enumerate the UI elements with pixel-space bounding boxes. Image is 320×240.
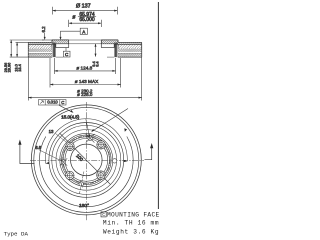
left thickness dimension 19.0/18.4 <box>14 42 29 71</box>
section: hub flange hatched left <box>52 40 69 44</box>
svg-text:180°: 180° <box>79 203 89 209</box>
section: hat skirt wall left <box>53 43 56 58</box>
runout tolerance box 0.010/C <box>39 100 74 113</box>
front view: bolt hole BR <box>97 171 106 180</box>
front view: hub circle Ø137 <box>52 125 121 194</box>
svg-text:15.0(4.5): 15.0(4.5) <box>61 114 80 119</box>
svg-text:C: C <box>61 100 64 105</box>
svg-text:ø 228.0: ø 228.0 <box>77 92 93 97</box>
dimension Ø230.2 / Ø228.0 <box>28 58 141 101</box>
front view: small hole left with cross marks <box>60 158 67 165</box>
dimension Ø143 MAX <box>50 58 121 88</box>
front view: small hole bottom <box>79 181 83 188</box>
front view: PCD circle dash-dot <box>63 136 111 184</box>
section: hat skirt wall right <box>114 43 117 58</box>
leader arrow right of front view <box>145 143 154 160</box>
svg-text:0.010: 0.010 <box>47 100 58 105</box>
front view: bolt hole TL <box>66 142 75 151</box>
section: bore wall left <box>68 40 70 48</box>
svg-text:13: 13 <box>49 129 54 134</box>
section: braking band left <box>28 42 52 57</box>
left band bottom extension <box>10 56 29 58</box>
front view: serration ring arcs <box>60 133 113 186</box>
datum box A with leader <box>60 28 88 40</box>
svg-text:C: C <box>102 212 105 218</box>
sheet border right <box>157 2 159 209</box>
section: bore wall right <box>100 40 102 48</box>
dimension hat depth vertical (right of bore) <box>91 44 99 67</box>
svg-text:ø: ø <box>72 14 75 20</box>
svg-text:ø 124.8: ø 124.8 <box>76 66 92 71</box>
section: bore far edge lines <box>69 39 102 41</box>
section: hub top face <box>52 39 69 41</box>
leader NE to top hole with arc arrowhead <box>91 109 128 133</box>
svg-text:6.2: 6.2 <box>41 26 46 33</box>
datum box C with leader <box>63 48 70 58</box>
note: datum C mounting face <box>101 212 160 219</box>
dimension Ø65.974/65.000 line <box>69 20 102 27</box>
section: braking band right <box>118 42 142 57</box>
front view: horizontal centerline <box>30 159 144 161</box>
svg-text:18.4: 18.4 <box>17 63 22 71</box>
leader arrow left of front view <box>18 140 34 164</box>
note 1.6 with leader to small hole left <box>35 145 62 161</box>
angle label 180° with radial <box>79 172 89 210</box>
svg-text:MOUNTING FACE: MOUNTING FACE <box>107 212 160 219</box>
front view: bolt hole BL <box>65 171 74 180</box>
front view: small hole right <box>112 159 116 163</box>
svg-text:Min. TH 16 mm: Min. TH 16 mm <box>103 220 159 227</box>
dimension 15.0(4.5) text with leader to top hole <box>61 114 90 138</box>
svg-text:Type DA: Type DA <box>4 230 29 237</box>
svg-text:ø 143 MAX: ø 143 MAX <box>75 79 99 84</box>
dimension 6.2 vertical <box>41 26 52 40</box>
front view: outer circle Ø228 <box>34 107 139 212</box>
svg-text:8.4: 8.4 <box>94 61 99 67</box>
svg-text:65.000: 65.000 <box>79 17 95 23</box>
note 12 with leader to bolt hole TL <box>49 129 67 143</box>
front view: bolt hole TR <box>97 140 106 149</box>
svg-text:28.96: 28.96 <box>7 63 12 73</box>
dimension Ø65.974/65.000 text <box>72 12 96 23</box>
front view: circle band inner edge <box>39 137 133 207</box>
svg-text:Weight 3.6 Kg: Weight 3.6 Kg <box>103 229 159 236</box>
dimension Ø100 diagonal through bolt holes <box>60 133 111 185</box>
left height dimension 29.56/28.96 <box>3 40 44 72</box>
front view: small hole top with cross marks <box>86 134 95 143</box>
section: hat underside right <box>101 47 114 49</box>
front view: circle Ø143 swept <box>49 122 124 197</box>
svg-text:Ø 137: Ø 137 <box>76 3 91 9</box>
section: hat underside left <box>56 47 69 49</box>
dimension Ø137 line <box>53 7 118 15</box>
angular dimension arc 180 <box>45 119 127 164</box>
section: hub flange hatched right <box>101 40 118 44</box>
svg-text:6.6: 6.6 <box>35 145 41 150</box>
front view: outer circle Ø230.2 <box>31 105 141 215</box>
front view: bore circle Ø65 <box>71 144 103 176</box>
dimension Ø124.8 <box>54 58 115 74</box>
front view: circle Ø124.8 <box>56 130 117 191</box>
front view: vertical centerline <box>85 102 87 222</box>
